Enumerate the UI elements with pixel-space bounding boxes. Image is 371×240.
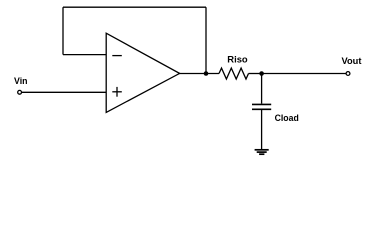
wire feedback left vertical bbox=[62, 7, 64, 54]
resistor Riso zigzag bbox=[219, 68, 249, 79]
wire feedback right vertical to output node bbox=[205, 7, 207, 73]
wire resistor to load node bbox=[249, 73, 262, 75]
node Vin terminal bbox=[18, 90, 22, 94]
wire feedback top horizontal bbox=[63, 6, 206, 8]
wire op-amp output to resistor bbox=[179, 73, 219, 75]
node Vout terminal bbox=[346, 72, 350, 76]
ground bbox=[255, 150, 269, 154]
svg-text:Cload: Cload bbox=[275, 113, 299, 123]
junction output node dot bbox=[204, 71, 209, 76]
op-amp inverting pin minus sign bbox=[112, 55, 122, 57]
wire load node to Vout bbox=[262, 73, 346, 75]
wire load node down to capacitor bbox=[261, 74, 263, 104]
op-amp non-inverting pin plus sign bbox=[112, 87, 122, 97]
svg-text:Vin: Vin bbox=[14, 76, 28, 86]
wire inverting input bbox=[63, 54, 106, 56]
svg-text:Riso: Riso bbox=[227, 54, 248, 64]
wire capacitor to ground bbox=[261, 110, 263, 149]
svg-text:Vout: Vout bbox=[342, 56, 362, 66]
capacitor Cload plates bbox=[252, 104, 271, 109]
junction load node dot bbox=[259, 71, 264, 76]
wire Vin to non-inverting input bbox=[22, 91, 106, 93]
op-amp U1 triangle bbox=[106, 33, 179, 112]
